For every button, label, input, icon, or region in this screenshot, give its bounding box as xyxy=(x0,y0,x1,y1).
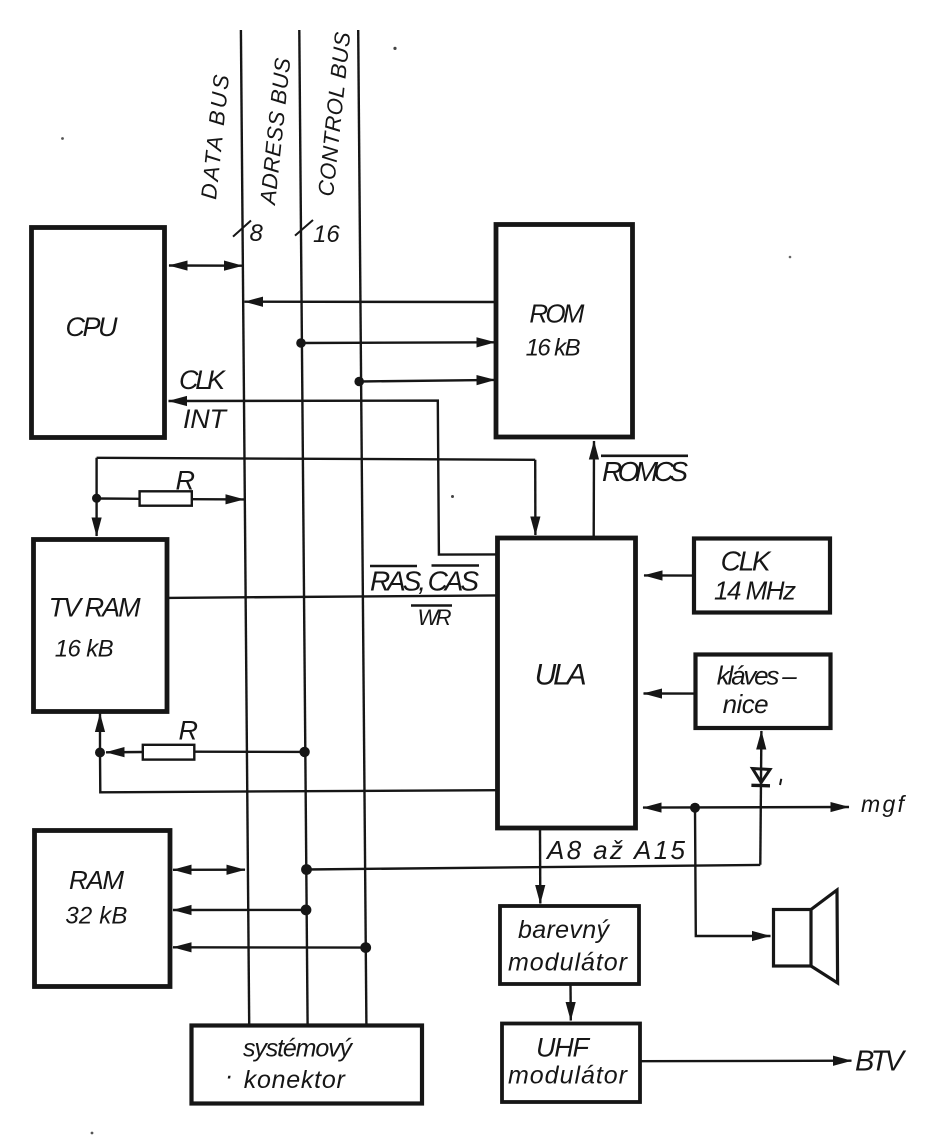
node junction R2 on address bus xyxy=(299,747,309,757)
svg-text:ADRESS BUS: ADRESS BUS xyxy=(255,56,295,207)
svg-text:8: 8 xyxy=(250,220,264,247)
diode D1 cathode bar xyxy=(751,784,770,788)
wire CLK INT from ULA to CPU xyxy=(169,401,498,555)
svg-text:TV RAM: TV RAM xyxy=(49,593,142,623)
svg-text:INT: INT xyxy=(183,404,229,434)
block systemovy konektor xyxy=(192,1026,423,1104)
svg-text:konektor: konektor xyxy=(244,1066,347,1094)
svg-text:CLK: CLK xyxy=(721,545,772,576)
svg-text:ROMCS: ROMCS xyxy=(602,456,688,487)
svg-text:DATA BUS: DATA BUS xyxy=(196,73,234,200)
wire CLK 14MHz to ULA xyxy=(644,574,694,577)
node junction address bus to ROM xyxy=(296,338,306,348)
node junction control bus RAM xyxy=(360,942,371,953)
svg-text:16: 16 xyxy=(313,221,340,248)
wire ROM data to data bus xyxy=(245,301,497,304)
block ROM xyxy=(496,225,633,438)
block ULA xyxy=(498,538,636,828)
svg-text:14 MHz: 14 MHz xyxy=(714,575,796,605)
wire bottom net up into TV RAM xyxy=(99,714,101,753)
wire address bus to ROM xyxy=(301,341,495,344)
svg-text:kláves –: kláves – xyxy=(717,661,798,691)
block RAM 32 kB xyxy=(35,831,171,987)
wire RAS CAS WR from TV RAM to ULA xyxy=(167,595,498,598)
svg-text:R: R xyxy=(176,466,196,496)
svg-text:RAM: RAM xyxy=(69,865,124,895)
svg-text:A8 až A15: A8 až A15 xyxy=(545,835,686,865)
node junction bottom R2 left xyxy=(95,748,105,758)
block klavesnice xyxy=(696,655,831,729)
label overline ROMCS xyxy=(601,454,688,457)
wire speaker feed xyxy=(695,808,771,936)
wire top net left vertical into TV RAM xyxy=(95,458,97,536)
wire control bus to RAM xyxy=(173,946,366,949)
speaker horn xyxy=(811,890,838,983)
wire ROMCS ULA to ROM xyxy=(593,441,596,538)
svg-text:modulátor: modulátor xyxy=(508,1062,629,1090)
wire klavesnice to ULA xyxy=(644,692,696,694)
wire resistor R1 left lead xyxy=(97,497,140,500)
wire CONTROL BUS vertical xyxy=(358,30,366,1025)
svg-text:UHF: UHF xyxy=(536,1033,591,1063)
label overline WR xyxy=(411,604,452,607)
node junction A8 on address bus xyxy=(301,864,312,875)
speaker box xyxy=(774,910,812,967)
wire bottom net to ULA xyxy=(100,753,498,793)
node junction mgf speaker tap xyxy=(690,803,700,813)
block UHF modulator xyxy=(502,1024,640,1103)
wire RAM to data bus bidirectional xyxy=(173,869,245,871)
wire address bus to RAM xyxy=(173,909,306,911)
svg-text:systémový: systémový xyxy=(243,1035,354,1063)
wire top net right vertical into ULA xyxy=(534,460,537,535)
wire ADRESS BUS vertical xyxy=(299,30,307,1025)
block barevny modulator xyxy=(500,906,639,984)
bus width slash 8 xyxy=(233,221,251,237)
wire DATA BUS vertical xyxy=(241,30,249,1025)
svg-text:16 kB: 16 kB xyxy=(526,335,581,362)
svg-text:CPU: CPU xyxy=(66,312,119,342)
wire barevny to UHF modulator xyxy=(569,984,572,1021)
wire resistor R1 right lead to data bus xyxy=(192,498,244,501)
label overline RAS xyxy=(370,565,417,568)
svg-text:barevný: barevný xyxy=(518,916,611,944)
wire resistor R2 right lead to address bus xyxy=(194,751,304,754)
svg-text:CLK: CLK xyxy=(179,365,226,395)
block CPU xyxy=(32,228,165,438)
svg-text:WR: WR xyxy=(418,605,452,630)
wire control bus to ROM xyxy=(359,380,495,382)
wire CPU to data bus bidirectional xyxy=(169,264,243,267)
wire UHF to BTV xyxy=(640,1059,852,1062)
node junction address bus RAM xyxy=(301,905,312,916)
node junction top R1 xyxy=(92,494,101,503)
wire ULA to barevny modulator xyxy=(539,828,542,904)
wire mgf from ULA xyxy=(643,806,849,809)
label overline CAS xyxy=(432,564,480,567)
svg-text:RAS, CAS: RAS, CAS xyxy=(370,566,479,597)
svg-text:CONTROL BUS: CONTROL BUS xyxy=(313,31,355,198)
svg-text:modulátor: modulátor xyxy=(508,949,629,977)
block TV RAM xyxy=(34,540,168,712)
svg-text:16 kB: 16 kB xyxy=(55,636,114,663)
svg-text:ROM: ROM xyxy=(529,299,584,329)
diode tick mark xyxy=(780,779,781,785)
svg-text:mgf: mgf xyxy=(861,791,907,817)
svg-text:·: · xyxy=(225,1062,233,1090)
diode D1 triangle xyxy=(753,769,771,783)
bus width slash 16 xyxy=(295,220,313,236)
svg-text:BTV: BTV xyxy=(855,1046,907,1078)
node junction control bus to ROM xyxy=(354,377,364,387)
svg-text:ULA: ULA xyxy=(535,659,587,692)
block CLK 14 MHz xyxy=(694,539,830,613)
svg-text:nice: nice xyxy=(723,689,769,719)
wire top net horizontal xyxy=(97,458,536,460)
svg-text:32 kB: 32 kB xyxy=(65,903,127,930)
wire resistor R2 left lead arrow xyxy=(106,751,143,754)
wire A8 az A15 xyxy=(307,865,761,870)
svg-text:R: R xyxy=(179,716,199,746)
resistor R2 body xyxy=(143,745,195,760)
resistor R1 body xyxy=(140,491,192,505)
wire keyboard diode line xyxy=(760,731,761,865)
